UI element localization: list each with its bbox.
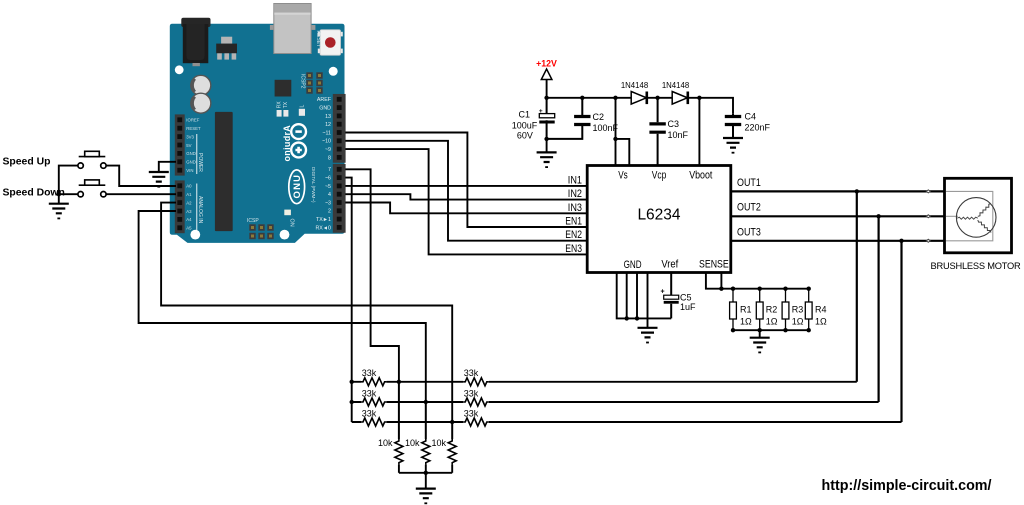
C5 value label (680, 293, 696, 313)
Arduino electrolytic capacitor C (top) (191, 75, 211, 95)
junction GND bus b (635, 316, 639, 320)
Arduino ICSP header (bottom) (249, 224, 273, 239)
wire OUT2 feedback drop (877, 216, 879, 402)
resistor R4 1ohm (805, 289, 812, 331)
L6234 bottom pin labels (624, 259, 729, 272)
wire SENSE pins to resistor bus (706, 273, 722, 289)
POWER silk label and divider (197, 134, 203, 174)
svg-text:~10: ~10 (322, 139, 331, 145)
diode D2 1N4148 (672, 92, 688, 105)
junction R1 top (731, 287, 735, 291)
resistor 33k row2 right (463, 398, 489, 406)
svg-text:RESET: RESET (186, 126, 201, 131)
svg-text:OUT2: OUT2 (737, 202, 761, 214)
svg-text:1uF: 1uF (680, 302, 696, 312)
R2 label (766, 305, 778, 327)
resistor 10k 2 (425, 402, 427, 439)
svg-text:1Ω: 1Ω (815, 317, 827, 327)
motor terminal 2 (926, 215, 930, 218)
left analog header labels (186, 184, 192, 231)
svg-text:RX◄0: RX◄0 (315, 225, 331, 231)
motor winding circle (956, 198, 996, 238)
svg-text:C4: C4 (745, 112, 757, 122)
C4 value label (745, 112, 771, 133)
Arduino electrolytic capacitor C (bottom) (191, 93, 211, 113)
resistor 10k 1 (398, 382, 400, 439)
wire Arduino GND pin to ground (159, 162, 176, 172)
junction R4 bottom (807, 328, 811, 332)
svg-text:A5: A5 (186, 226, 192, 231)
svg-text:2: 2 (328, 209, 331, 215)
svg-text:33k: 33k (464, 368, 479, 378)
svg-text:RX: RX (277, 101, 283, 109)
svg-text:33k: 33k (362, 368, 377, 378)
svg-text:~11: ~11 (322, 130, 331, 136)
resistor 10k 3 (451, 422, 453, 439)
svg-text:+12V: +12V (536, 59, 557, 69)
junction OUT3 (899, 239, 903, 243)
svg-text:VIN: VIN (186, 168, 193, 173)
svg-text:33k: 33k (362, 388, 377, 398)
Arduino right header lower (7..0) (333, 164, 346, 233)
svg-text:10k: 10k (405, 438, 420, 448)
Arduino right header upper (AREF..8) (333, 94, 346, 163)
R1 label (740, 305, 752, 327)
wire divider row 1 (352, 381, 857, 383)
wire 10k bottom bus (399, 473, 452, 489)
svg-text:oniudrA: oniudrA (282, 125, 292, 162)
svg-text:1N4148: 1N4148 (621, 81, 648, 90)
wire pin 4 to IN2 (345, 194, 587, 199)
wire Speed Down left to ground (59, 194, 78, 204)
R3 label (792, 305, 804, 327)
junction sense bus left (719, 287, 723, 291)
svg-text:C3: C3 (668, 119, 680, 129)
wire divider row 3 (352, 421, 902, 423)
junction OUT2 (876, 214, 880, 218)
L6234 top pin labels (618, 170, 712, 182)
svg-text:ONU: ONU (292, 174, 303, 199)
wire Speed Up right to A0 (106, 166, 176, 186)
wire top supply rail (547, 98, 733, 114)
svg-text:IOREF: IOREF (186, 118, 200, 123)
wire Vboot to rail (698, 98, 700, 166)
ground C4 (723, 138, 743, 154)
wire sense resistor bottom bus (733, 329, 809, 331)
junction R1 bottom (731, 328, 735, 332)
C3 value label (668, 119, 689, 140)
wire A2 to divider row 3 (161, 203, 452, 422)
junction rail C2 (580, 96, 584, 100)
svg-text:3V3: 3V3 (186, 134, 194, 139)
svg-text:+: + (661, 289, 665, 296)
Arduino UNO board PCB (170, 24, 345, 243)
wire pin 7 to resistor row 1 (345, 169, 399, 381)
C1 value label (512, 110, 538, 141)
wire pin ~6 to resistor rows common (345, 178, 351, 422)
svg-text:Speed Up: Speed Up (3, 157, 51, 168)
svg-text:R4: R4 (815, 305, 827, 315)
svg-text:1Ω: 1Ω (740, 317, 752, 327)
capacitor C1 electrolytic (539, 98, 555, 139)
svg-text:RESET: RESET (315, 31, 321, 48)
wire ground stub under GND bus (647, 318, 649, 327)
Arduino infinity logo (291, 124, 306, 157)
wire +12V to rail (546, 80, 548, 98)
Arduino mounting holes (175, 65, 338, 239)
resistor 33k row3 left (361, 418, 387, 426)
wire 10k2 bottom (425, 465, 427, 473)
push button Speed Down (78, 180, 106, 197)
svg-text:GND: GND (319, 106, 331, 112)
resistor R2 1ohm (756, 289, 763, 331)
svg-text:TX: TX (283, 101, 289, 108)
junction Vs jog (613, 137, 617, 141)
svg-text:OUT3: OUT3 (737, 226, 761, 238)
wire A3 to divider row 2 (139, 211, 426, 402)
svg-text:BRUSHLESS MOTOR: BRUSHLESS MOTOR (931, 261, 1022, 271)
ground sense resistors (750, 338, 770, 354)
svg-text:5V: 5V (186, 143, 191, 148)
svg-text:Vs: Vs (618, 170, 628, 182)
wire 10k1 bottom (398, 465, 400, 473)
svg-text:DIGITAL (PWM~): DIGITAL (PWM~) (311, 167, 316, 203)
junction row3 10k (450, 420, 454, 424)
wire Speed Down right to A1 (106, 193, 176, 195)
svg-text:33k: 33k (464, 388, 479, 398)
svg-text:AREF: AREF (317, 97, 332, 103)
UNO oval logo (289, 170, 305, 204)
motor terminal 1 (926, 190, 930, 193)
resistor 33k row1 right (463, 378, 489, 386)
svg-text:Vboot: Vboot (689, 170, 712, 182)
junction 10k bus (424, 471, 428, 475)
svg-text:10nF: 10nF (668, 130, 689, 140)
svg-text:1N4148: 1N4148 (662, 81, 689, 90)
junction C1 C2 bottom (544, 137, 548, 141)
motor winding Y lower (978, 220, 991, 233)
svg-text:~9: ~9 (325, 147, 331, 153)
svg-text:A4: A4 (186, 217, 192, 222)
svg-text:~6: ~6 (325, 176, 331, 182)
Arduino left power header (175, 114, 185, 175)
33k labels left (362, 368, 377, 418)
svg-text:A0: A0 (186, 184, 192, 189)
svg-text:Vref: Vref (661, 259, 679, 271)
wire Speed Up left to junction (59, 166, 78, 195)
ground C1 (537, 152, 557, 168)
svg-text:EN3: EN3 (565, 243, 582, 255)
svg-text:~5: ~5 (325, 184, 331, 190)
svg-text:60V: 60V (517, 131, 533, 141)
svg-text:IN1: IN1 (568, 174, 582, 186)
svg-text:ICSP: ICSP (247, 218, 259, 224)
svg-text:7: 7 (328, 167, 331, 173)
svg-text:~3: ~3 (325, 200, 331, 206)
svg-text:GND: GND (624, 259, 642, 271)
capacitor C5 1uF on Vref (661, 273, 679, 319)
L6234 right pin labels (737, 177, 761, 239)
svg-text:GND: GND (186, 160, 196, 165)
wire pin ~3 to IN3 (345, 203, 587, 214)
right header pin labels upper (317, 97, 332, 161)
svg-text:33k: 33k (362, 408, 377, 418)
junction OUT1 (855, 189, 859, 193)
ground Arduino GND (149, 172, 169, 188)
junction row2 10k (424, 400, 428, 404)
right header pin labels lower (315, 167, 331, 231)
resistor R1 1ohm (730, 289, 737, 331)
RX TX silk labels and LEDs (277, 101, 290, 117)
svg-text:SENSE: SENSE (699, 259, 729, 271)
wire 10k3 bottom (451, 465, 453, 473)
junction rail C3 (655, 96, 659, 100)
Arduino voltage regulator (216, 37, 237, 60)
resistor 33k row3 right (463, 418, 489, 426)
svg-text:+: + (539, 108, 543, 115)
junction R3 top (783, 287, 787, 291)
svg-text:EN1: EN1 (565, 216, 582, 228)
L silk label and LED (299, 105, 306, 116)
ground 10k divider (416, 489, 436, 505)
svg-text:TX►1: TX►1 (316, 217, 331, 223)
junction row1 common (350, 380, 354, 384)
wire pin ~5 to IN1 (345, 185, 587, 187)
junction R2 top (758, 287, 762, 291)
Arduino left analog header (175, 180, 185, 233)
svg-text:4: 4 (328, 192, 331, 198)
motor internal connections (946, 191, 993, 240)
diode D1 1N4148 (631, 92, 647, 105)
svg-text:1Ω: 1Ω (766, 317, 778, 327)
junction row2 common (350, 400, 354, 404)
junction row1 10k (397, 380, 401, 384)
svg-text:A1: A1 (186, 192, 192, 197)
wire pin ~10 to EN2 (345, 141, 587, 241)
+12V power arrow (541, 69, 552, 80)
R4 label (815, 305, 827, 327)
svg-text:13: 13 (325, 114, 331, 120)
capacitor C2 100nF (548, 98, 591, 139)
wire OUT3 feedback drop (900, 241, 902, 422)
wire divider row 2 (352, 401, 879, 403)
svg-text:100uF: 100uF (512, 121, 538, 131)
svg-text:33k: 33k (464, 408, 479, 418)
junction R3 bottom (783, 328, 787, 332)
left power header labels (186, 118, 201, 173)
motor terminal 3 (926, 239, 930, 242)
svg-text:10k: 10k (431, 438, 446, 448)
junction GND bus a (625, 316, 629, 320)
L6234 left pin labels (565, 174, 582, 255)
wire ground stub sense (759, 330, 761, 338)
svg-text:1Ω: 1Ω (792, 317, 804, 327)
ANALOG IN silk label and divider (197, 184, 203, 233)
wire OUT1 feedback drop (856, 191, 858, 381)
svg-text:R3: R3 (792, 305, 804, 315)
svg-text:C2: C2 (593, 112, 605, 122)
Arduino ATmega328 chip (215, 112, 233, 231)
svg-text:EN2: EN2 (565, 229, 582, 241)
svg-text:L6234: L6234 (637, 207, 680, 224)
10k labels (378, 438, 447, 448)
wire L6234 GND pins to ground bus (617, 273, 672, 319)
svg-text:L: L (300, 105, 306, 108)
resistor 33k row1 left (361, 378, 387, 386)
svg-text:C5: C5 (680, 293, 692, 303)
op-amp driver IC L6234 body (587, 166, 731, 273)
junction R2 bottom (758, 328, 762, 332)
junction rail Vs (613, 96, 617, 100)
svg-text:IN2: IN2 (568, 188, 582, 200)
svg-text:http://simple-circuit.com/: http://simple-circuit.com/ (822, 478, 992, 494)
svg-text:Speed Down: Speed Down (3, 187, 65, 198)
wire OUT3 to motor (731, 240, 945, 242)
svg-text:R1: R1 (740, 305, 752, 315)
svg-text:10k: 10k (378, 438, 393, 448)
wire Vs pins to rail (616, 98, 630, 166)
resistor R3 1ohm (782, 289, 789, 331)
capacitor C4 220nF (725, 114, 741, 138)
junction rail Vboot (697, 96, 701, 100)
svg-text:ON: ON (289, 219, 295, 227)
svg-text:ANALOG IN: ANALOG IN (197, 196, 203, 224)
Arduino USB connector (270, 4, 316, 54)
svg-text:ICSP2: ICSP2 (300, 74, 306, 89)
junction R4 top (807, 287, 811, 291)
svg-text:POWER: POWER (197, 153, 203, 172)
motor winding Y upper (978, 204, 991, 217)
motor winding Y left (957, 217, 978, 219)
ground push buttons (49, 204, 69, 220)
wire OUT2 to motor (731, 215, 945, 217)
svg-text:A2: A2 (186, 200, 192, 205)
push button Speed Up (78, 151, 106, 168)
wire OUT1 to motor (731, 190, 945, 192)
33k labels right (464, 368, 479, 418)
capacitor C3 10nF (649, 98, 665, 166)
brushless motor body (945, 178, 1012, 253)
svg-text:12: 12 (325, 122, 331, 128)
svg-text:OUT1: OUT1 (737, 177, 761, 189)
Arduino DC power jack (181, 18, 210, 66)
ground L6234 GND (638, 328, 658, 344)
svg-text:R2: R2 (766, 305, 778, 315)
Arduino ICSP2 header (306, 72, 322, 93)
svg-text:8: 8 (328, 155, 331, 161)
svg-text:C1: C1 (519, 110, 531, 120)
svg-text:IN3: IN3 (568, 202, 582, 214)
junction buttons ground (57, 192, 61, 196)
svg-text:GND: GND (186, 151, 196, 156)
wire pin ~9 to EN3 (345, 149, 587, 254)
junction rail C1 (544, 96, 548, 100)
resistor 33k row2 left (361, 398, 387, 406)
svg-text:Vcp: Vcp (652, 170, 667, 182)
Arduino reset button (318, 30, 343, 55)
C2 value label (593, 112, 619, 133)
wire sense resistor top bus (721, 288, 808, 290)
svg-text:A3: A3 (186, 209, 192, 214)
wire pin ~11 to EN1 (345, 133, 587, 228)
wire C1 bottom to ground (546, 139, 548, 153)
svg-text:220nF: 220nF (745, 123, 771, 133)
ON silk label and LED (284, 210, 294, 227)
Arduino USB interface chip (275, 80, 292, 97)
